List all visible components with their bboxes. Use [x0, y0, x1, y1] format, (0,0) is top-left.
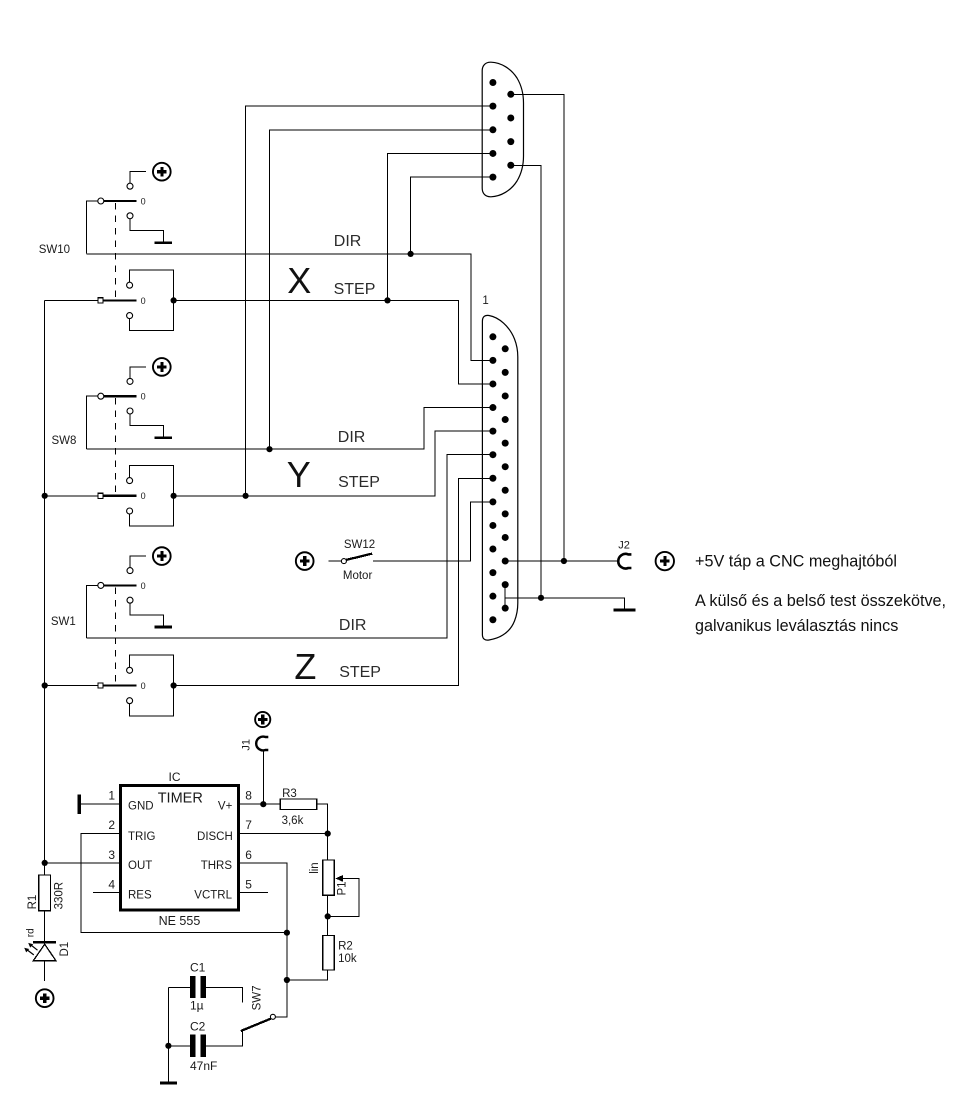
- +V supply symbol at SW12: [296, 552, 314, 570]
- svg-text:1: 1: [482, 295, 488, 307]
- wire +V to SW12 contact: [329, 560, 342, 562]
- wire DIR Y net (SW8 pole to DB25 pin4): [87, 408, 493, 450]
- svg-text:6: 6: [245, 848, 252, 862]
- svg-text:10k: 10k: [338, 953, 357, 965]
- svg-text:DIR: DIR: [339, 617, 367, 634]
- wire SW10 upper bottom throw to ground: [130, 219, 164, 242]
- svg-text:3: 3: [108, 848, 115, 862]
- potentiometer P1 body: [323, 860, 335, 895]
- switch SW10 lower blade (position 0): [103, 299, 136, 301]
- svg-text:A külső és a belső test összek: A külső és a belső test összekötve,: [695, 592, 946, 610]
- wire DIR X net (SW10 pole to DB25 pin2): [87, 254, 493, 361]
- svg-text:Motor: Motor: [343, 570, 373, 582]
- junction C2 / ground wire: [165, 1043, 171, 1049]
- wire DB25 pin23 to J2: [505, 560, 618, 562]
- wire R1 to D1: [44, 911, 46, 941]
- wire STEP Z net (SW1 throws to DB25 pin7): [174, 478, 493, 685]
- switch SW8 upper blade (position 0): [104, 395, 136, 397]
- IC pin 7 DISCH wire: [239, 833, 328, 835]
- ground (capacitors): [160, 1082, 177, 1085]
- connector DB25 pins: [489, 333, 508, 623]
- IC pin 6 THRS wire: [239, 863, 287, 933]
- wire SW1 upper pole to DIR line: [87, 585, 98, 638]
- switch SW8 upper pole contact: [98, 393, 104, 399]
- capacitor C2: [190, 1035, 206, 1057]
- wire SW1 lower pole to OUT bus: [45, 685, 98, 687]
- svg-text:GND: GND: [128, 800, 154, 812]
- junction DISCH / R3-P1: [325, 831, 331, 837]
- switch SW10 upper section +V supply symbol: [153, 163, 171, 181]
- svg-text:SW10: SW10: [39, 244, 70, 256]
- svg-text:SW7: SW7: [251, 985, 263, 1010]
- wire SW1 upper bottom throw to ground: [130, 603, 164, 626]
- svg-text:C2: C2: [190, 1020, 206, 1034]
- +V supply symbol near J2: [656, 552, 674, 570]
- wire STEP X net (SW10 throws to DB25 pin3): [174, 300, 493, 384]
- connector J1: [256, 737, 268, 751]
- junction SW10 lower throws to STEP line: [171, 297, 177, 303]
- wire DB9 pin5 to DIR X junction: [411, 177, 493, 254]
- wire SW10 lower throw loop: [130, 270, 174, 331]
- junction SW1 lower throws to STEP line: [171, 682, 177, 688]
- svg-text:TIMER: TIMER: [158, 790, 203, 806]
- ground (J2 area): [614, 609, 636, 612]
- switch SW1 upper section +V supply symbol: [153, 547, 171, 565]
- switch SW1 lower throw contacts: [127, 667, 133, 673]
- op-amp/timer IC U1 box (NE555): [121, 786, 239, 911]
- svg-text:0: 0: [141, 581, 146, 591]
- wire THRS node down to SW7: [275, 933, 287, 1017]
- svg-text:galvanikus leválasztás nincs: galvanikus leválasztás nincs: [695, 617, 898, 635]
- switch SW10 upper pole contact: [98, 198, 104, 204]
- wire DIR Z net (SW1 pole to DB25 pin6): [87, 455, 493, 638]
- wire SW8 upper bottom throw to ground: [130, 414, 164, 437]
- IC pin 1 GND stub: [81, 803, 121, 805]
- svg-text:3,6k: 3,6k: [282, 815, 304, 827]
- svg-text:0: 0: [141, 196, 146, 206]
- wire capacitor ground rail: [167, 987, 169, 1081]
- wire C2 left lead: [168, 1045, 190, 1047]
- svg-text:J1: J1: [240, 739, 252, 751]
- svg-text:0: 0: [141, 491, 146, 501]
- switch SW1 lower pole contact (square): [98, 683, 103, 688]
- wire SW8 lower pole to OUT bus: [45, 495, 98, 497]
- svg-text:TRIG: TRIG: [128, 831, 156, 843]
- dashed gang link SW10: [114, 203, 116, 299]
- wire SW10 upper top throw to +V: [130, 172, 146, 184]
- junction OUT bus / SW1: [42, 682, 48, 688]
- wire D1 to +V: [44, 961, 46, 982]
- IC pin 5 VCTRL stub: [239, 892, 268, 894]
- svg-text:lin: lin: [309, 862, 321, 874]
- svg-text:SW8: SW8: [52, 435, 77, 447]
- wire R2 bottom to SW7 node: [287, 970, 328, 980]
- wire P1 wiper to P1 bottom: [328, 878, 359, 916]
- wire DISCH node to P1 top: [327, 834, 329, 860]
- capacitor C1: [190, 976, 206, 998]
- ground flag at IC pin1: [78, 794, 81, 814]
- resistor R2: [323, 935, 335, 970]
- connector DB9 outline (top, to CNC driver): [482, 62, 523, 197]
- switch SW8 upper top throw contact: [127, 378, 133, 384]
- wire SW12 to DB25 pin8: [373, 502, 493, 561]
- svg-text:STEP: STEP: [338, 474, 380, 491]
- svg-text:VCTRL: VCTRL: [194, 889, 232, 901]
- wire SW1 upper top throw to +V: [130, 556, 146, 568]
- svg-text:8: 8: [245, 789, 252, 803]
- wire DB9 pin3 to DIR Y junction: [270, 130, 493, 449]
- svg-text:DIR: DIR: [338, 429, 366, 446]
- svg-text:V+: V+: [218, 801, 233, 813]
- IC pin 3 OUT wire to bus: [45, 862, 121, 864]
- switch SW1 upper pole contact: [98, 582, 104, 588]
- svg-text:RES: RES: [128, 889, 152, 901]
- junction OUT bus / SW8: [42, 493, 48, 499]
- svg-text:0: 0: [141, 681, 146, 691]
- wire DB9 pin4 to STEP X junction: [388, 153, 493, 300]
- wire SW8 upper pole to DIR line: [87, 396, 98, 449]
- switch SW10 upper blade (position 0): [104, 200, 136, 202]
- switch SW10 lower pole contact (square): [98, 298, 103, 303]
- svg-text:DIR: DIR: [334, 233, 362, 250]
- wire OUT bus (555 output to step switches): [44, 300, 46, 863]
- wire C1 left lead: [168, 986, 190, 988]
- svg-text:1: 1: [108, 789, 115, 803]
- svg-text:rd: rd: [26, 928, 37, 937]
- svg-text:NE 555: NE 555: [159, 914, 201, 928]
- wire DB9 pin6 to +5V J2 line: [511, 94, 564, 561]
- svg-text:330R: 330R: [53, 882, 65, 910]
- switch SW12 blade (open): [346, 554, 372, 560]
- svg-text:IC: IC: [169, 770, 181, 784]
- wire STEP Y net (SW8 throws to DB25 pin5): [174, 431, 493, 496]
- switch SW10 lower throw contacts: [127, 282, 133, 288]
- svg-text:STEP: STEP: [339, 664, 381, 681]
- switch SW10 upper bottom throw contact: [127, 213, 133, 219]
- ground (SW10 upper): [154, 241, 172, 244]
- switch SW12 contact: [341, 559, 346, 564]
- svg-text:J2: J2: [618, 540, 630, 552]
- dashed gang link SW1: [114, 587, 116, 684]
- IC pin 4 RES stub: [93, 892, 121, 894]
- wire C1 right lead to SW7 throw: [206, 987, 243, 1002]
- svg-text:THRS: THRS: [201, 860, 233, 872]
- svg-text:7: 7: [245, 818, 252, 832]
- IC pin 8 V+ wire: [239, 803, 281, 805]
- junction OUT / R1: [42, 860, 48, 866]
- junction SW8 lower throws to STEP line: [171, 493, 177, 499]
- switch SW1 upper top throw contact: [127, 568, 133, 574]
- wire C2 right lead to SW7 blade: [206, 1031, 243, 1046]
- svg-text:2: 2: [108, 818, 115, 832]
- svg-text:1µ: 1µ: [190, 998, 204, 1012]
- switch SW1 lower blade (position 0): [103, 684, 136, 686]
- +V supply symbol at J1: [255, 712, 270, 727]
- junction P1 bottom: [325, 913, 331, 919]
- wire SW10 upper pole to DIR line: [87, 201, 98, 254]
- P1 wiper arrow: [335, 875, 343, 882]
- switch SW7 common contact: [270, 1014, 275, 1019]
- switch SW1 upper blade (position 0): [104, 584, 136, 586]
- svg-text:0: 0: [141, 392, 146, 402]
- LED D1 cathode bar: [33, 941, 56, 944]
- svg-text:SW1: SW1: [51, 616, 76, 628]
- wire P1 body bottom to R2: [327, 895, 329, 935]
- connector J2: [618, 554, 631, 569]
- svg-text:DISCH: DISCH: [197, 831, 233, 843]
- wire SW8 upper top throw to +V: [130, 367, 146, 379]
- svg-text:Z: Z: [294, 646, 316, 687]
- svg-text:D1: D1: [59, 942, 71, 957]
- switch SW8 lower pole contact (square): [98, 493, 103, 498]
- wire SW1 lower throw loop: [130, 655, 174, 716]
- junction R2 / SW7 node: [284, 977, 290, 983]
- svg-text:5: 5: [245, 877, 252, 891]
- resistor R1: [39, 875, 51, 911]
- wire SW10 lower pole to OUT bus: [45, 299, 98, 301]
- svg-text:C1: C1: [190, 961, 206, 975]
- svg-text:P1: P1: [337, 881, 349, 895]
- switch SW7 blade (to C2): [241, 1019, 271, 1031]
- wire DB25 pins 24-25 tie: [504, 585, 506, 609]
- svg-text:47nF: 47nF: [190, 1059, 217, 1073]
- wire OUT node to R1: [44, 863, 46, 875]
- svg-text:R3: R3: [282, 788, 297, 800]
- resistor R3: [280, 799, 316, 810]
- switch SW10 upper top throw contact: [127, 183, 133, 189]
- wire J1 to V+ node: [262, 751, 264, 805]
- svg-text:Y: Y: [287, 454, 311, 495]
- svg-text:X: X: [287, 260, 311, 301]
- +V supply symbol at D1: [36, 989, 54, 1007]
- connector DB25 outline (parallel port): [482, 315, 517, 640]
- svg-text:R1: R1: [27, 895, 39, 910]
- IC pin 2 TRIG wire to THRS loop: [81, 834, 287, 933]
- ground (SW8 upper): [154, 437, 172, 440]
- switch SW8 lower blade (position 0): [103, 495, 136, 497]
- switch SW8 upper section +V supply symbol: [153, 358, 171, 376]
- switch SW8 upper bottom throw contact: [127, 408, 133, 414]
- switch SW8 lower throw contacts: [127, 478, 133, 484]
- LED D1 triangle: [33, 944, 56, 961]
- connector DB9 pins: [489, 79, 514, 181]
- wire DB9 pin2 to STEP Y junction: [246, 106, 493, 496]
- svg-text:0: 0: [141, 296, 146, 306]
- dashed gang link SW8: [114, 398, 116, 495]
- switch SW1 upper bottom throw contact: [127, 597, 133, 603]
- svg-text:SW12: SW12: [344, 539, 375, 551]
- wire R3 to DISCH node: [317, 804, 328, 833]
- junction V+ / J1: [260, 801, 266, 807]
- junction TRIG/THRS: [284, 930, 290, 936]
- ground (SW1 upper): [154, 626, 172, 629]
- svg-text:+5V táp a CNC meghajtóból: +5V táp a CNC meghajtóból: [695, 553, 897, 571]
- svg-text:R2: R2: [338, 941, 353, 953]
- svg-text:4: 4: [108, 877, 115, 891]
- wire SW8 lower throw loop: [130, 466, 174, 527]
- svg-text:OUT: OUT: [128, 860, 152, 872]
- svg-text:STEP: STEP: [334, 281, 376, 298]
- wire ground net to ground symbol: [505, 598, 624, 609]
- wire DB9 pin9 to ground line: [511, 165, 541, 598]
- LED D1 light arrows: [24, 943, 37, 955]
